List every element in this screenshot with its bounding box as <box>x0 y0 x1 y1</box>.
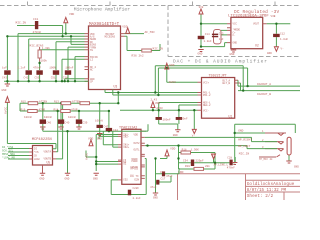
svg-text:MIC_IN: MIC_IN <box>153 48 164 51</box>
svg-text:U1: U1 <box>229 115 233 119</box>
svg-text:C44: C44 <box>113 129 118 132</box>
svg-text:VDD: VDD <box>88 138 93 141</box>
svg-text:100nF: 100nF <box>163 118 171 121</box>
svg-text:IN2-: IN2- <box>123 135 130 138</box>
svg-text:LDAC: LDAC <box>34 158 41 161</box>
svg-text:GND: GND <box>233 42 238 45</box>
svg-text:GND: GND <box>40 178 45 181</box>
svg-text:C12: C12 <box>280 33 285 36</box>
svg-text:TS922IJPT: TS922IJPT <box>209 74 227 78</box>
svg-text:OUT2: OUT2 <box>134 142 141 145</box>
svg-text:CP: CP <box>90 81 94 84</box>
svg-text:GND: GND <box>153 197 158 200</box>
svg-text:20k: 20k <box>205 164 210 168</box>
svg-text:D4_*CS2: D4_*CS2 <box>2 145 14 149</box>
svg-text:R13: R13 <box>54 101 59 104</box>
svg-text:470R: 470R <box>39 108 46 111</box>
svg-text:8/07/15 11:32 PM: 8/07/15 11:32 PM <box>247 188 287 193</box>
svg-text:1.0uF: 1.0uF <box>280 38 288 41</box>
svg-text:1.0uF: 1.0uF <box>204 40 212 43</box>
svg-text:HPVSS: HPVSS <box>131 168 139 171</box>
svg-text:Sheet: 2/2: Sheet: 2/2 <box>247 194 274 199</box>
svg-text:C22F: C22F <box>133 187 140 190</box>
svg-text:IN2+: IN2+ <box>123 146 130 149</box>
svg-text:100nF: 100nF <box>65 67 73 70</box>
svg-text:MIC_IN: MIC_IN <box>16 22 27 25</box>
svg-text:GND: GND <box>173 134 178 137</box>
svg-text:C34: C34 <box>183 160 188 163</box>
svg-text:1.38k: 1.38k <box>42 46 50 50</box>
svg-text:R19: R19 <box>185 165 190 168</box>
svg-text:3V8: 3V8 <box>199 6 204 9</box>
svg-text:2.2uF: 2.2uF <box>133 197 141 200</box>
svg-text:TP_MIC 4k: TP_MIC 4k <box>259 158 273 161</box>
svg-text:C13: C13 <box>219 32 224 35</box>
svg-text:2.2uF: 2.2uF <box>17 67 25 70</box>
svg-text:GND: GND <box>93 178 98 181</box>
svg-text:C18: C18 <box>160 171 165 174</box>
svg-text:AVCC: AVCC <box>86 153 89 160</box>
svg-text:47uF: 47uF <box>150 186 157 189</box>
svg-text:R36 2k2: R36 2k2 <box>132 54 144 58</box>
svg-text:470nF: 470nF <box>227 166 235 169</box>
svg-text:C46: C46 <box>46 121 51 124</box>
svg-text:GND: GND <box>267 52 272 55</box>
svg-text:C40: C40 <box>65 121 70 124</box>
svg-text:HP_LEFT: HP_LEFT <box>238 145 250 148</box>
svg-text:C41: C41 <box>33 18 38 21</box>
svg-text:1.30K: 1.30K <box>191 148 199 151</box>
svg-text:U4: U4 <box>130 174 134 178</box>
svg-text:U3: U3 <box>114 85 118 89</box>
svg-text:V-: V- <box>281 48 285 51</box>
svg-text:GND: GND <box>198 53 203 56</box>
svg-text:MIC_IN: MIC_IN <box>239 152 250 155</box>
svg-text:GND: GND <box>294 165 299 168</box>
svg-text:VCC+: VCC+ <box>203 81 210 84</box>
svg-text:470R: 470R <box>71 108 78 111</box>
svg-text:C51: C51 <box>51 76 56 79</box>
svg-text:DACOUT_A: DACOUT_A <box>257 83 271 86</box>
svg-text:AVCC: AVCC <box>4 107 7 114</box>
svg-text:C50: C50 <box>35 76 40 79</box>
svg-text:TX: TX <box>136 175 140 178</box>
svg-text:LTC3263ESE6A-3PBF: LTC3263ESE6A-3PBF <box>228 14 269 18</box>
svg-text:MAX9814ETD+T: MAX9814ETD+T <box>89 23 120 27</box>
svg-text:MCP4822SN: MCP4822SN <box>32 138 52 142</box>
svg-text:ATTEN: ATTEN <box>72 101 80 104</box>
svg-text:AVCC: AVCC <box>156 107 163 110</box>
svg-text:C47: C47 <box>104 126 109 129</box>
svg-text:VOUT: VOUT <box>253 23 260 26</box>
svg-text:AF_MIC: AF_MIC <box>145 31 156 34</box>
svg-text:S1: S1 <box>123 163 127 166</box>
svg-text:470nF: 470nF <box>33 67 41 70</box>
svg-text:R18: R18 <box>182 148 187 151</box>
svg-text:VDD: VDD <box>69 13 74 16</box>
svg-text:100nF: 100nF <box>68 116 76 119</box>
svg-text:GND: GND <box>65 178 70 181</box>
svg-text:HP_RIGHT: HP_RIGHT <box>238 138 252 141</box>
svg-text:VCC: VCC <box>233 23 238 26</box>
svg-text:470nF: 470nF <box>33 31 42 34</box>
svg-text:VOUTA: VOUTA <box>44 151 52 154</box>
svg-text:R15: R15 <box>21 101 26 104</box>
svg-text:GND: GND <box>230 53 235 56</box>
svg-text:V-: V- <box>192 135 196 138</box>
svg-text:VDD: VDD <box>170 148 175 151</box>
svg-text:NC: NC <box>90 69 94 72</box>
svg-text:TO4: TO4 <box>211 154 216 157</box>
svg-text:C39: C39 <box>83 121 88 124</box>
svg-text:2.43: 2.43 <box>151 99 158 102</box>
svg-text:AVCC: AVCC <box>169 81 176 84</box>
svg-text:GoldilocksAnalogue: GoldilocksAnalogue <box>247 182 295 187</box>
svg-text:C43: C43 <box>2 76 7 79</box>
svg-text:OUTL: OUTL <box>134 149 141 152</box>
svg-text:100k: 100k <box>41 58 48 62</box>
svg-text:*LDAC_MR: *LDAC_MR <box>2 155 15 159</box>
svg-text:100nF: 100nF <box>180 118 188 121</box>
svg-text:100N: 100N <box>49 67 56 70</box>
svg-text:C14: C14 <box>205 33 210 36</box>
svg-text:BLT_B: BLT_B <box>223 82 231 85</box>
svg-text:1uF: 1uF <box>2 67 7 70</box>
svg-text:MICBIAS: MICBIAS <box>105 36 116 39</box>
svg-text:100nF: 100nF <box>24 116 32 119</box>
svg-text:VDD: VDD <box>155 102 160 105</box>
svg-text:GND: GND <box>238 129 243 132</box>
svg-text:VOUTB: VOUTB <box>44 158 52 161</box>
svg-text:LI: LI <box>90 59 94 62</box>
svg-text:VDD: VDD <box>134 133 139 136</box>
svg-text:E2N: E2N <box>135 179 140 182</box>
svg-text:47uF: 47uF <box>166 175 173 178</box>
svg-text:R16: R16 <box>21 108 26 111</box>
svg-text:C17: C17 <box>161 177 166 180</box>
svg-text:V3B: V3B <box>271 15 276 18</box>
svg-text:R14: R14 <box>54 108 59 111</box>
svg-text:100nV: 100nV <box>95 120 103 123</box>
svg-text:VDD: VDD <box>122 26 127 29</box>
svg-text:GND: GND <box>97 138 102 141</box>
svg-text:C28: C28 <box>227 156 232 159</box>
svg-text:GND: GND <box>2 89 7 92</box>
svg-text:C42: C42 <box>24 76 29 79</box>
svg-text:100nF: 100nF <box>44 116 52 119</box>
svg-text:TH: TH <box>90 49 94 52</box>
svg-text:Microphone Amplifier: Microphone Amplifier <box>74 7 130 13</box>
svg-text:DAC + DC & AUDIO Amplifier: DAC + DC & AUDIO Amplifier <box>173 59 268 65</box>
svg-text:U5: U5 <box>47 161 51 165</box>
svg-text:ATTEN: ATTEN <box>39 101 47 104</box>
svg-text:CO2: CO2 <box>123 179 128 182</box>
svg-text:DACOUT_B: DACOUT_B <box>257 93 271 96</box>
svg-text:C-: C- <box>233 34 237 37</box>
svg-text:VDD: VDD <box>170 64 175 67</box>
svg-text:PGND: PGND <box>132 160 139 163</box>
svg-text:220pF: 220pF <box>196 160 204 163</box>
svg-text:NEG-2: NEG-2 <box>203 104 211 107</box>
svg-text:VCC-: VCC- <box>203 109 210 112</box>
svg-text:U2: U2 <box>255 44 259 48</box>
svg-text:TPA6132A2: TPA6132A2 <box>119 126 137 130</box>
svg-text:C38: C38 <box>63 76 68 79</box>
svg-text:1uF: 1uF <box>219 38 224 41</box>
svg-text:PO1-2: PO1-2 <box>203 94 211 97</box>
